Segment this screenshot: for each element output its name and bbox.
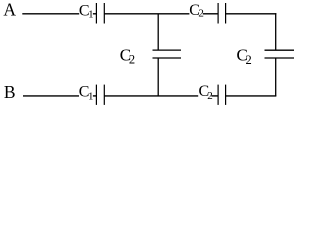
svg-text:2: 2 bbox=[129, 53, 135, 67]
capacitor C2 right bbox=[265, 50, 295, 58]
label C2 right bbox=[237, 45, 252, 67]
label C2 top bbox=[189, 2, 204, 20]
wire top C1 to C2 label bbox=[104, 13, 189, 15]
capacitor C2 top bbox=[218, 3, 226, 24]
label C1 bottom bbox=[79, 84, 94, 103]
wire top label C2 to plate bbox=[203, 13, 218, 15]
svg-text:A: A bbox=[3, 0, 16, 19]
svg-text:1: 1 bbox=[88, 8, 94, 20]
svg-text:1: 1 bbox=[88, 90, 94, 102]
label C1 top bbox=[79, 2, 94, 20]
wire right vertical lower bbox=[275, 58, 277, 96]
capacitor C1 top bbox=[96, 3, 104, 24]
wire bottom label C1 to plate bbox=[93, 95, 97, 97]
wire middle vertical upper bbox=[157, 14, 159, 50]
wire bottom label C2 to plate bbox=[211, 95, 218, 97]
node A bbox=[3, 0, 16, 19]
wire middle vertical lower bbox=[157, 58, 159, 96]
label C2 middle bbox=[120, 45, 135, 66]
node B bbox=[4, 82, 16, 102]
capacitor C1 bottom bbox=[96, 85, 104, 105]
capacitor C2 bottom bbox=[218, 85, 226, 105]
wire top label C1 to plate bbox=[93, 13, 97, 15]
capacitor C2 middle bbox=[153, 50, 182, 58]
wire top C2 to right corner bbox=[226, 13, 277, 15]
wire bottom from B to C1 bbox=[23, 95, 79, 97]
wire right vertical upper bbox=[275, 13, 277, 50]
svg-text:B: B bbox=[4, 82, 16, 102]
svg-text:2: 2 bbox=[246, 53, 252, 67]
wire top from A to C1 bbox=[22, 13, 79, 15]
wire bottom C2 to right corner bbox=[226, 95, 277, 97]
label C2 bottom bbox=[199, 83, 213, 102]
wire bottom C1 to C2 label bbox=[104, 95, 198, 97]
